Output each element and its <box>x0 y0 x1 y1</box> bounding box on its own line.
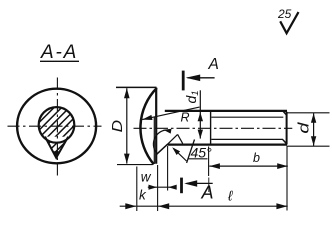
dimension d line <box>313 113 315 146</box>
thread minor top line <box>211 116 283 118</box>
nib bevel 45deg <box>156 144 168 155</box>
dimension w line <box>148 186 176 188</box>
k extension left <box>136 167 138 212</box>
b extension left <box>208 147 210 177</box>
dimension l line <box>137 205 288 207</box>
wire vertical centerline left view <box>56 78 58 177</box>
wire horizontal centerline left view <box>8 125 102 127</box>
inner face line <box>153 117 155 164</box>
wire bolt centerline <box>134 127 293 129</box>
bolt head top line with D extension <box>116 86 157 88</box>
w extension right <box>167 146 169 191</box>
thread minor bottom line <box>211 138 283 140</box>
bolt head dome arc <box>140 88 156 164</box>
shank bottom outline <box>168 144 287 146</box>
dimension d1 line <box>199 90 201 138</box>
svg-text:d: d <box>295 121 312 133</box>
d extension bottom <box>287 145 330 147</box>
radius R leader <box>142 107 199 120</box>
end chamfer top <box>283 111 287 115</box>
bolt head bearing face <box>155 88 157 164</box>
end chamfer bottom <box>283 140 287 144</box>
svg-text:A: A <box>201 183 214 203</box>
svg-text:A-A: A-A <box>40 42 78 63</box>
svg-text:A: A <box>208 56 219 73</box>
svg-text:ℓ: ℓ <box>227 188 233 204</box>
dimension D line <box>126 88 128 163</box>
d extension top <box>287 112 330 114</box>
D bottom extension <box>117 164 153 166</box>
svg-text:R: R <box>181 111 190 125</box>
svg-text:D: D <box>109 120 126 133</box>
l extension left (head face) <box>157 165 159 211</box>
head outline circle (D) in section <box>17 89 96 164</box>
angle arc 45deg <box>153 130 165 154</box>
section plane mark A top <box>182 71 185 91</box>
svg-text:w: w <box>141 169 152 184</box>
nib outline in section <box>45 137 68 158</box>
45deg leader <box>174 149 187 161</box>
bolt end face <box>286 112 288 145</box>
shank circle in section <box>39 107 75 143</box>
svg-text:b: b <box>253 151 260 165</box>
svg-text:25: 25 <box>277 7 292 21</box>
nib bevel extension <box>168 134 178 144</box>
dimension b line <box>209 165 287 167</box>
shank top outline <box>165 110 287 112</box>
thread start line <box>210 112 212 145</box>
l extension right (bolt end) <box>286 146 288 211</box>
section plane mark A bottom <box>180 178 183 194</box>
dimension k outside arrow <box>120 205 137 207</box>
